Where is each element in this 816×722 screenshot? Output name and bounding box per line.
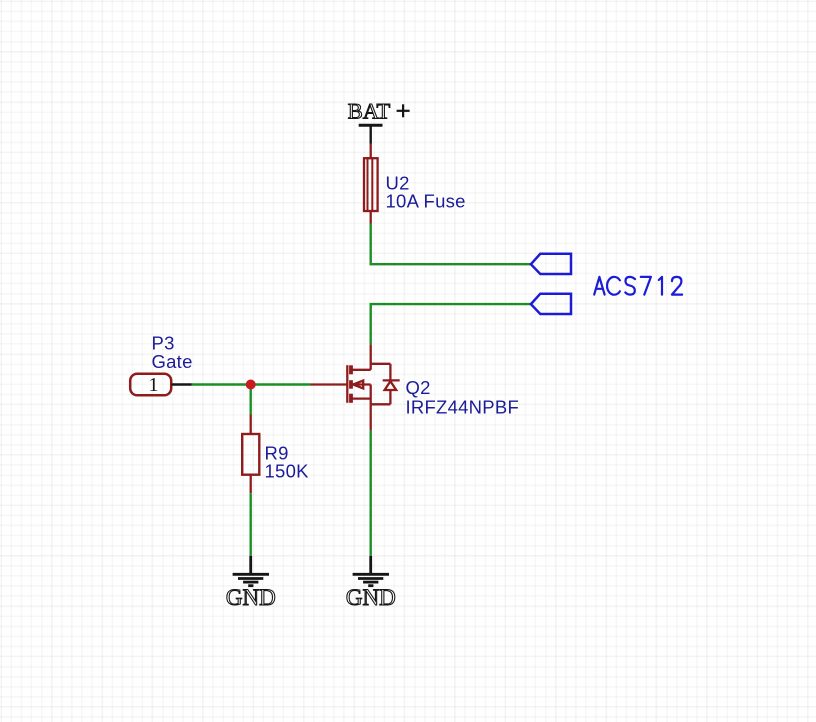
wire R9 to GND	[249, 493, 251, 556]
connector P3 pin	[172, 383, 192, 385]
wire junction down to R9	[249, 385, 251, 415]
hierarchical label arrow 2	[531, 294, 571, 314]
junction	[246, 380, 256, 390]
resistor R9 pin top	[250, 415, 252, 435]
wire source to GND	[370, 430, 372, 556]
power symbol BAT+	[348, 99, 410, 144]
net name ACS712	[594, 277, 682, 295]
transistor Q2 gate pin	[311, 383, 348, 385]
svg-text:Gate: Gate	[152, 351, 193, 372]
fuse U2 pin 2 (bottom)	[370, 211, 372, 224]
wire P3 to gate	[192, 383, 311, 385]
fuse U2 body	[364, 158, 378, 211]
fuse U2 pin 1 (top)	[370, 144, 372, 159]
hierarchical label arrow 1	[531, 254, 571, 274]
svg-text:GND: GND	[226, 585, 276, 610]
transistor Q2 body	[347, 344, 399, 404]
resistor R9 pin bottom	[250, 475, 252, 494]
transistor Q2 source pin	[370, 404, 372, 430]
svg-text:Q2: Q2	[406, 377, 431, 398]
svg-text:IRFZ44NPBF: IRFZ44NPBF	[406, 397, 520, 418]
ground symbol right	[353, 556, 389, 586]
svg-text:10A Fuse: 10A Fuse	[386, 191, 466, 212]
ground symbol left	[233, 556, 269, 586]
resistor R9 body	[242, 434, 259, 475]
connector P3 body	[130, 374, 171, 396]
svg-text:150K: 150K	[265, 461, 310, 482]
wire fuse to hierarchical label 1	[371, 224, 531, 265]
svg-text:BAT: BAT	[348, 99, 391, 124]
svg-text:1: 1	[149, 374, 159, 396]
svg-text:GND: GND	[346, 585, 396, 610]
wire hierarchical label 2 to MOSFET drain	[371, 304, 531, 344]
